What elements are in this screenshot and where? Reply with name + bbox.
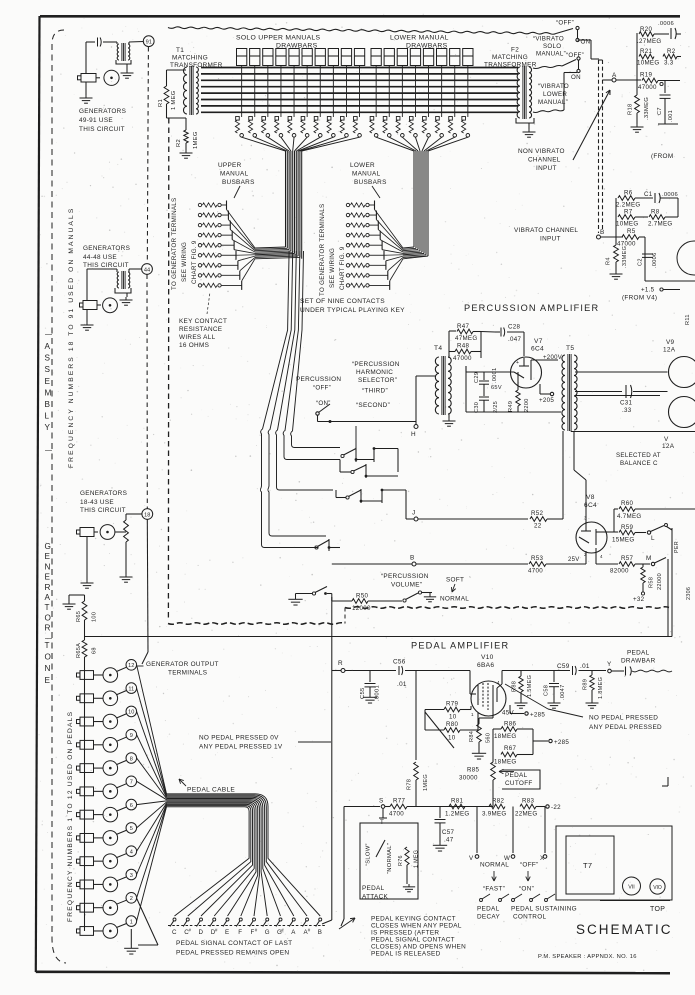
svg-text:C: C [172, 929, 177, 936]
svg-text:91: 91 [146, 40, 152, 46]
svg-text:UPPER: UPPER [218, 162, 242, 169]
wire B node row [332, 563, 412, 565]
svg-text:.0047: .0047 [560, 685, 566, 701]
svg-text:10MEG: 10MEG [616, 221, 638, 228]
lower manual key contact row 1 [346, 203, 349, 206]
wire terminal 18 to generator output junction [146, 519, 149, 652]
svg-text:VIO: VIO [653, 885, 662, 891]
svg-text:18-43 USE: 18-43 USE [80, 499, 114, 506]
svg-text:“ON”: “ON” [316, 400, 331, 407]
pedal generator magnet row 4 [80, 857, 94, 866]
svg-text:GENERATORS: GENERATORS [79, 108, 126, 115]
svg-text:ANY PEDAL PRESSED 1V: ANY PEDAL PRESSED 1V [199, 744, 283, 751]
terminal +285 upper [510, 713, 524, 715]
upper drawbar 2 [250, 49, 260, 66]
svg-text:12A: 12A [663, 347, 676, 354]
ground at volume switch [429, 593, 431, 595]
pedal generator magnet row 10 [80, 717, 94, 726]
lower drawbar 4 [410, 49, 420, 66]
svg-text:R85: R85 [467, 767, 480, 774]
svg-text:NORMAL: NORMAL [480, 862, 509, 869]
wire F2 lower tap [533, 110, 564, 113]
svg-text:CONTROL: CONTROL [513, 914, 546, 921]
svg-text:CHART FIG. 9: CHART FIG. 9 [191, 240, 198, 284]
svg-text:NO PEDAL PRESSED 0V: NO PEDAL PRESSED 0V [199, 735, 279, 742]
wire pickup 2 to terminal [117, 900, 127, 904]
svg-text:C7: C7 [657, 107, 663, 115]
svg-text:PERCUSSION: PERCUSSION [296, 376, 341, 383]
callout line to pedal wire [298, 741, 331, 743]
pedal generator magnet row 3 [80, 880, 94, 889]
generator rows bus wire [84, 675, 86, 931]
svg-text:“NORMAL”: “NORMAL” [387, 843, 393, 874]
svg-text:R77: R77 [393, 798, 406, 805]
generator output resistor [125, 518, 127, 520]
generator circuit 49-91: magnet [85, 42, 87, 74]
svg-text:THIS CIRCUIT: THIS CIRCUIT [83, 262, 129, 269]
node B vibrato input [597, 235, 601, 239]
svg-text:GENERATORS: GENERATORS [83, 245, 130, 252]
svg-text:+285: +285 [554, 739, 569, 746]
svg-text:.01: .01 [580, 663, 590, 670]
svg-text:R5: R5 [627, 228, 636, 235]
capacitor C57 .47 and ground [439, 807, 441, 819]
V8 plate wire [596, 531, 607, 533]
svg-text:ANY PEDAL PRESSED: ANY PEDAL PRESSED [589, 724, 662, 731]
lower busbar bundle joins drawbar bundle [403, 247, 414, 248]
svg-text:E: E [45, 552, 51, 561]
svg-text:1: 1 [130, 919, 133, 925]
pedal drawbar cap and slider [612, 670, 625, 672]
svg-text:PEDAL IS RELEASED: PEDAL IS RELEASED [371, 951, 441, 958]
pedal contact C# [186, 918, 189, 921]
resistor R84 560 and ground [492, 707, 494, 718]
percussion key contact take-off wires [291, 251, 340, 448]
wire V8 cathode R53 [440, 563, 528, 565]
svg-text:DECAY: DECAY [477, 914, 500, 921]
svg-text:GENERATORS: GENERATORS [80, 490, 127, 497]
svg-text:BALANCE C: BALANCE C [620, 460, 658, 467]
svg-text:.18MEG: .18MEG [492, 759, 517, 766]
svg-text:+205: +205 [539, 397, 554, 404]
svg-text:R84: R84 [469, 731, 475, 742]
percussion shield boundary left (dashed) [167, 118, 169, 621]
upper drawbar 9 [341, 49, 351, 66]
svg-text:F2: F2 [511, 47, 519, 54]
node H [415, 422, 417, 425]
shield wavy wire manual chassis [168, 27, 556, 34]
svg-text:2.2MEG: 2.2MEG [616, 202, 641, 209]
capacitor C58 .0047 [553, 671, 555, 683]
svg-text:3.3: 3.3 [664, 60, 674, 67]
svg-text:P.M. SPEAKER : APPNDX. NO. 16: P.M. SPEAKER : APPNDX. NO. 16 [538, 954, 637, 960]
svg-text:“VIBRATO: “VIBRATO [533, 36, 564, 43]
svg-text:F: F [238, 929, 242, 936]
lower manual key contact row 4 [346, 233, 349, 236]
svg-text:1 MEG: 1 MEG [171, 90, 177, 110]
svg-text:R82: R82 [492, 798, 505, 805]
node S [381, 805, 385, 809]
svg-text:—: — [45, 447, 52, 454]
upper manual key contact row 8 [198, 274, 201, 277]
lower manual key contact row 9 [346, 284, 349, 287]
svg-text:R: R [45, 624, 51, 633]
upper drawbar 7 [315, 49, 325, 66]
resistor R85 30000 pedal cutoff pot [492, 755, 494, 763]
svg-text:R: R [338, 660, 343, 667]
wire switch to cable [577, 30, 579, 39]
generator circuit 44-48: magnet [86, 269, 88, 301]
svg-text:S: S [45, 365, 51, 374]
svg-text:R83: R83 [522, 798, 535, 805]
wire terminal circle 2 to cable [137, 806, 167, 898]
svg-text:R49: R49 [508, 401, 514, 412]
tube VII circle [623, 877, 641, 895]
svg-text:MANUAL”: MANUAL” [538, 99, 568, 106]
svg-text:M: M [646, 555, 652, 562]
upper drawbar 3 [263, 49, 273, 66]
svg-text:FREQUENCY NUMBERS 18 TO 91: FREQUENCY NUMBERS 18 TO 91 USED ON MANUA… [68, 207, 75, 468]
svg-text:SELECTED AT: SELECTED AT [616, 452, 661, 459]
pedal generator magnet row 1 [80, 927, 94, 936]
svg-text:C29: C29 [474, 372, 480, 383]
wire terminal circle 9 to cable [137, 735, 167, 798]
pedal cable conductor 10 [167, 804, 253, 916]
svg-text:A: A [45, 342, 51, 351]
wire terminal circle 4 to cable [137, 803, 167, 851]
wire pickup 3 to terminal [117, 877, 127, 881]
svg-text:100: 100 [92, 612, 98, 622]
svg-text:R81: R81 [451, 798, 464, 805]
vibrato solo manual switch [556, 29, 573, 34]
terminal +205 [540, 393, 550, 395]
pedal generator pickup row 6 [103, 807, 118, 822]
lower drawbar resistors [370, 117, 374, 121]
svg-text:6: 6 [130, 803, 133, 809]
ground at R65 [68, 601, 70, 604]
svg-text:44-48 USE: 44-48 USE [83, 254, 117, 261]
svg-text:O: O [45, 653, 52, 662]
pedal contact F# [253, 918, 256, 921]
svg-text:R78: R78 [407, 779, 413, 790]
svg-text:V10: V10 [481, 654, 494, 661]
pedal contact G [266, 918, 269, 921]
pedal generator magnet row 5 [80, 833, 94, 842]
svg-text:6C4: 6C4 [584, 502, 597, 509]
svg-text:.33MEG: .33MEG [622, 246, 628, 268]
svg-text:10: 10 [448, 735, 456, 742]
upper manual key contact row 4 [198, 233, 201, 236]
border bottom [36, 972, 670, 973]
resistor R60 4.7MEG [607, 531, 614, 533]
pedal contact A [292, 918, 295, 921]
pedal generator pickup row 1 [103, 924, 118, 939]
svg-text:R2: R2 [176, 139, 182, 147]
pedal cable conductor 5 [167, 799, 268, 917]
percussion shield boundary bottom right (wavy dashed) [345, 607, 669, 609]
svg-text:A: A [612, 72, 617, 79]
generator circuit 44-48: matching transformer [87, 268, 117, 270]
resistor R18 .33MEG [636, 80, 638, 95]
transformer core bracket and ground [116, 60, 131, 64]
svg-text:SEE WIRING: SEE WIRING [329, 248, 336, 288]
lower drawbar 8 [463, 49, 473, 66]
svg-text:—: — [45, 331, 52, 338]
svg-text:22: 22 [534, 523, 542, 530]
capacitor C17 .001 [664, 81, 666, 94]
resistor R59 15MEG [607, 531, 618, 533]
svg-text:T7: T7 [583, 861, 592, 870]
wire pickup 7 to terminal [117, 784, 127, 788]
wire pickup 4 to terminal [117, 854, 127, 858]
svg-text:CHART FIG. 9: CHART FIG. 9 [339, 246, 346, 290]
svg-text:.047: .047 [508, 336, 522, 343]
lower drawbar 6 [437, 49, 447, 66]
lower manual key contact row 5 [346, 244, 349, 247]
svg-text:R48: R48 [457, 343, 470, 350]
svg-text:6BA6: 6BA6 [477, 662, 494, 669]
resistor R47 47MEG [448, 331, 450, 358]
resistor R89 1.8MEG [591, 671, 593, 676]
svg-text:44: 44 [144, 267, 150, 273]
svg-text:65V: 65V [491, 385, 502, 391]
generator output terminal circle 11 [126, 683, 137, 694]
capacitor C29 .0001 65V [483, 372, 485, 380]
svg-text:PEDAL SIGNAL CONTACT OF LA: PEDAL SIGNAL CONTACT OF LAST [176, 940, 292, 947]
generator output terminal circle 2 [126, 893, 137, 904]
svg-text:C56: C56 [393, 659, 406, 666]
svg-text:47000: 47000 [638, 84, 657, 91]
svg-text:4700: 4700 [528, 568, 543, 575]
resistor R2 1MEG and ground [185, 118, 187, 130]
ground under magnet [86, 310, 88, 323]
upper busbar bundle joins drawbar bundle [255, 247, 286, 248]
generator circuit 18-43: pickup coil [100, 525, 115, 540]
pedal generator pickup row 4 [103, 854, 118, 869]
T5 vertical wires down [562, 431, 564, 519]
pedal cable conductor 4 [167, 797, 281, 916]
wire terminal circle 3 to cable [137, 804, 167, 874]
node A [612, 78, 616, 82]
pedal cable conductor 11 [167, 806, 251, 916]
svg-text:“ON”: “ON” [519, 886, 534, 893]
svg-text:B: B [410, 555, 415, 562]
svg-text:PEDAL: PEDAL [505, 772, 528, 779]
generator circuit 49-91: matching transformer [117, 44, 119, 60]
svg-text:INPUT: INPUT [540, 236, 561, 243]
wire pickup 1 to terminal [117, 924, 127, 928]
svg-text:1.2MEG: 1.2MEG [445, 811, 470, 818]
wire terminal circle 7 to cable [137, 781, 167, 799]
resistor R65 100 [84, 595, 86, 601]
left rail of vibrato divider [636, 33, 638, 80]
svg-text:C31: C31 [620, 400, 633, 407]
svg-text:18: 18 [144, 512, 150, 518]
svg-text:FREQUENCY NUMBERS 1 TO 12: FREQUENCY NUMBERS 1 TO 12 USED ON PEDALS [67, 711, 74, 922]
resistor R88 1.5MEG [520, 671, 522, 677]
svg-text:“SECOND”: “SECOND” [356, 402, 390, 409]
svg-text:6C4: 6C4 [531, 346, 544, 353]
svg-text:“OFF”: “OFF” [566, 52, 584, 59]
pedal cable conductor 8 [167, 802, 257, 916]
third bank contact [315, 546, 318, 549]
svg-text:(FROM V4): (FROM V4) [622, 295, 657, 302]
svg-text:.18MEG: .18MEG [492, 733, 517, 740]
svg-text:R2: R2 [667, 48, 676, 55]
pedal generator magnet row 11 [80, 694, 94, 703]
svg-text:CUTOFF: CUTOFF [505, 780, 533, 787]
svg-text:“THIRD”: “THIRD” [362, 388, 388, 395]
upper manual key contact row 3 [198, 223, 201, 226]
svg-text:R79: R79 [446, 701, 459, 708]
svg-text:C30: C30 [474, 402, 480, 413]
svg-text:N: N [45, 664, 51, 673]
svg-text:V8: V8 [586, 494, 595, 501]
dashed wire terminal 44 to terminal 18 [146, 275, 148, 509]
svg-text:R65: R65 [76, 611, 82, 622]
capacitor C31 .33 [625, 385, 627, 398]
svg-text:“PERCUSSION: “PERCUSSION [352, 361, 400, 368]
upper drawbar 8 [328, 49, 338, 66]
resistor R1 1MEG [167, 69, 187, 71]
svg-text:ON: ON [571, 74, 581, 81]
svg-text:4: 4 [130, 850, 133, 856]
ground under magnet wire [86, 537, 88, 581]
upper drawbar 5 [289, 49, 299, 66]
wire pickup 11 to terminal [117, 691, 127, 695]
ground under resistor [125, 574, 127, 577]
transformer core bracket and ground [115, 288, 131, 293]
pedal sustain switch W [512, 807, 514, 854]
svg-text:MANUAL”: MANUAL” [536, 51, 566, 58]
svg-text:4: 4 [600, 554, 603, 559]
ground under magnet [85, 82, 87, 95]
svg-text:CLOSES) AND OPENS WHEN: CLOSES) AND OPENS WHEN [371, 944, 466, 951]
svg-text:R67: R67 [504, 745, 517, 752]
pedal generator pickup row 8 [103, 761, 118, 776]
pedal generator magnet row 7 [80, 787, 94, 796]
svg-text:H: H [411, 431, 416, 438]
generator output terminal circle 12 [126, 660, 137, 671]
svg-text:PEDAL: PEDAL [477, 906, 500, 913]
percussion cutoff contact and ground [296, 593, 313, 595]
pedal generator pickup row 10 [103, 714, 118, 729]
svg-text:49-91 USE: 49-91 USE [79, 117, 113, 124]
dashed wire terminal 91 to terminal 44 [147, 47, 148, 263]
svg-text:22000: 22000 [657, 573, 663, 590]
svg-text:V7: V7 [534, 338, 543, 345]
wire H to T4 [415, 376, 417, 422]
node M [651, 562, 654, 565]
generator output terminal circle 10 [126, 706, 137, 717]
upper drawbar 4 [276, 49, 286, 66]
svg-text:VIBRATO CHANNEL: VIBRATO CHANNEL [514, 227, 578, 234]
svg-text:.0006: .0006 [652, 253, 658, 269]
svg-text:3: 3 [584, 516, 587, 521]
wire pickup 9 to terminal [117, 737, 127, 741]
pedal keying contact [341, 919, 344, 926]
terminal circle 91 [143, 36, 154, 47]
generator output terminal circle 8 [126, 753, 137, 764]
svg-text:T1: T1 [176, 47, 184, 54]
upper drawbar bundle converge [242, 137, 286, 151]
svg-text:R11: R11 [685, 314, 691, 325]
svg-text:SCHEMATIC: SCHEMATIC [576, 922, 673, 937]
pedal generator pickup row 2 [103, 900, 118, 915]
pedal contact D# [213, 918, 216, 921]
wire terminal circle 5 to cable [137, 802, 167, 828]
resistor R4 .33MEG and ground [615, 237, 617, 245]
generator output terminal circle 3 [126, 869, 137, 880]
svg-text:R89: R89 [583, 679, 589, 690]
svg-text:B: B [318, 929, 322, 936]
svg-text:4.7MEG: 4.7MEG [617, 513, 642, 520]
resistor R78 1MEG [414, 762, 419, 780]
svg-text:C1: C1 [644, 191, 653, 198]
wire terminal circle 8 to cable [137, 758, 167, 799]
wire J row to R52 [418, 518, 528, 520]
svg-text:+1.5: +1.5 [641, 287, 655, 294]
svg-text:NON VIBRATO: NON VIBRATO [518, 148, 565, 155]
ground under R18 [636, 124, 638, 127]
svg-text:VII: VII [628, 885, 635, 891]
upper manual key contact row 2 [198, 213, 201, 216]
node B wire to divider [601, 236, 624, 238]
wire to R65 and ground [69, 594, 85, 596]
capacitor C30 2/25 [483, 390, 485, 396]
speaker chassis outline [556, 826, 672, 900]
bracket mark right edge [667, 777, 669, 786]
percussion volume switch [403, 599, 406, 602]
AVC diagonal wire [425, 712, 454, 748]
svg-text:2.7MEG: 2.7MEG [648, 221, 673, 228]
svg-text:+32: +32 [633, 596, 645, 603]
svg-text:PEDAL CABLE: PEDAL CABLE [187, 787, 235, 794]
harmonic selector switch network lower bank [346, 496, 349, 499]
node L switch [647, 531, 650, 534]
svg-text:L: L [651, 535, 655, 542]
generator output terminal circle 1 [126, 916, 137, 927]
shielded cable to preamp (dashed pair) [598, 60, 600, 233]
svg-text:“PERCUSSION: “PERCUSSION [381, 573, 429, 580]
svg-text:82000: 82000 [610, 568, 629, 575]
pedal contact F [239, 918, 242, 921]
pedal cable conductor 1 [167, 794, 321, 916]
svg-text:(FROM: (FROM [651, 153, 673, 160]
svg-text:R: R [45, 583, 51, 592]
lower manual key contact row 2 [346, 213, 349, 216]
svg-text:KEY CONTACT: KEY CONTACT [179, 318, 227, 325]
svg-text:R76: R76 [398, 855, 404, 866]
transformer T1 [183, 67, 187, 114]
pedal generator pickup row 5 [103, 831, 118, 846]
upper drawbar 10 [354, 49, 364, 66]
pedal contact G# [279, 918, 282, 921]
pedal generator magnet row 8 [80, 764, 94, 773]
lower manual key contact row 8 [346, 274, 349, 277]
left rail R6 R7 R5 [615, 198, 617, 237]
svg-text:R50: R50 [356, 593, 369, 600]
lower drawbar 3 [397, 49, 407, 66]
svg-text:R59: R59 [621, 524, 634, 531]
svg-text:R57: R57 [621, 555, 634, 562]
wire pickup 6 to terminal [117, 807, 127, 811]
svg-text:TO GENERATOR TERMINALS: TO GENERATOR TERMINALS [171, 198, 178, 290]
capacitor C28 .047 [480, 331, 482, 334]
pedal generator pickup row 12 [103, 668, 118, 683]
generator output terminal circle 9 [126, 729, 137, 740]
tube V4 envelope (partial) [677, 241, 695, 275]
